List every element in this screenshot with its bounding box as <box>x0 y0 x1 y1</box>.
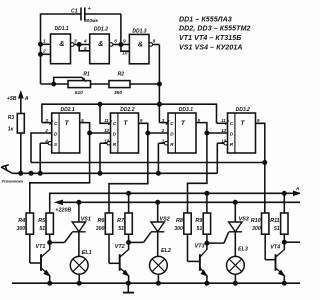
node DD1.2 out / C1 / DD1.3 in <box>119 39 129 56</box>
wire set/reset line (Установка) <box>12 171 217 175</box>
resistor R1 (trimmer) <box>41 72 91 96</box>
svg-text:300: 300 <box>174 226 183 232</box>
svg-text:А: А <box>295 186 299 191</box>
svg-text:51: 51 <box>39 226 45 232</box>
svg-text:EL3: EL3 <box>238 246 248 252</box>
svg-text:DD1.2: DD1.2 <box>94 26 108 32</box>
svg-text:51: 51 <box>118 226 124 232</box>
svg-text:DD1.3: DD1.3 <box>132 29 146 35</box>
resistor R8 <box>174 213 191 234</box>
svg-text:300: 300 <box>96 226 105 232</box>
svg-text:R2: R2 <box>118 72 125 78</box>
wire DD2.2 output to DD3.1 D and R6 <box>109 123 168 213</box>
svg-text:DD3.2: DD3.2 <box>236 107 250 113</box>
resistor R2 <box>109 72 159 96</box>
svg-text:10: 10 <box>122 50 128 55</box>
svg-text:DD2, DD3 – К555ТМ2: DD2, DD3 – К555ТМ2 <box>179 26 251 33</box>
svg-text:R3: R3 <box>8 115 15 121</box>
thyristor VS3 <box>234 202 236 222</box>
svg-text:390: 390 <box>114 90 122 96</box>
legend parts list <box>179 17 251 52</box>
node VT1 collector / R5 / VS1 gate <box>48 232 72 244</box>
thyristor VS1 <box>78 202 80 222</box>
svg-text:R: R <box>170 142 174 147</box>
svg-text:VT4: VT4 <box>270 244 280 250</box>
wire DD3.2 R input <box>217 141 227 173</box>
svg-text:D: D <box>113 132 117 137</box>
svg-text:VS3: VS3 <box>239 217 249 223</box>
svg-text:&: & <box>98 39 103 48</box>
wire DD3.1 C input <box>159 122 168 124</box>
svg-text:R7: R7 <box>117 218 125 224</box>
svg-text:VT1: VT1 <box>36 244 46 250</box>
wire +5V rail to base resistors (net A) <box>50 186 300 213</box>
wire DD2.1 D input from feedback <box>31 133 52 163</box>
svg-text:R5: R5 <box>38 218 46 224</box>
capacitor C1 <box>71 6 121 24</box>
svg-text:R11: R11 <box>270 218 280 224</box>
svg-text:+5В: +5В <box>7 96 17 102</box>
svg-text:1к: 1к <box>8 126 14 132</box>
svg-text:D: D <box>170 132 174 137</box>
wire DD3.2 C input <box>217 122 228 124</box>
svg-text:&: & <box>59 39 64 48</box>
wire DD3.2 output to R10 and feedback <box>256 123 267 213</box>
gate DD1.3 <box>129 29 159 64</box>
svg-text:T: T <box>65 120 70 127</box>
resistor R9 <box>195 213 210 234</box>
svg-text:DD3.1: DD3.1 <box>179 107 193 113</box>
svg-text:6: 6 <box>114 39 117 44</box>
resistor R3 <box>8 114 25 174</box>
svg-text:C: C <box>113 121 117 126</box>
svg-text:VT3: VT3 <box>195 243 205 249</box>
transistor VT3 <box>188 260 200 262</box>
wire ground bus <box>12 281 300 285</box>
wire R8 base lead ch3 <box>187 234 189 261</box>
wire C1 to DD1.2 output node <box>120 14 122 45</box>
flip-flop DD2.2 <box>111 113 139 153</box>
flip-flop DD3.2 <box>228 113 256 153</box>
svg-text:3: 3 <box>74 39 77 44</box>
svg-text:51: 51 <box>274 226 280 232</box>
svg-text:VS2: VS2 <box>160 217 170 223</box>
svg-text:9: 9 <box>140 118 143 123</box>
svg-text:4: 4 <box>83 39 87 44</box>
svg-text:+220В: +220В <box>55 208 71 214</box>
transistor VT1 <box>30 262 41 264</box>
resistor R11 <box>270 213 288 234</box>
wire DD2.1 S input <box>40 141 52 173</box>
wire feedback line Q4 to D1 <box>31 162 265 164</box>
ground <box>123 283 134 292</box>
svg-text:5: 5 <box>84 46 87 51</box>
node VT2 collector / R7 / VS2 gate <box>127 232 151 244</box>
svg-text:T: T <box>124 120 129 127</box>
svg-text:C: C <box>170 121 174 126</box>
svg-text:EL1: EL1 <box>82 250 92 256</box>
svg-text:1: 1 <box>43 39 46 44</box>
wire DD3.1 output to DD3.2 D and R8 <box>188 123 228 213</box>
svg-text:VT1 VT4 – КТ315Б: VT1 VT4 – КТ315Б <box>179 35 241 42</box>
resistor R6 <box>96 213 113 234</box>
wire R10 base lead ch4 <box>264 234 266 260</box>
flip-flop DD3.1 <box>168 113 196 153</box>
svg-text:EL2: EL2 <box>161 248 171 254</box>
switch SB1 Установка <box>1 165 24 184</box>
svg-text:11: 11 <box>221 118 226 123</box>
svg-text:S: S <box>54 142 58 147</box>
node VT4 collector / R11 / VS4 gate (off page) <box>282 234 300 244</box>
wire DD3.1 R input <box>158 141 168 173</box>
svg-text:C: C <box>54 121 58 126</box>
svg-text:&: & <box>138 39 143 48</box>
svg-text:D: D <box>230 132 234 137</box>
svg-text:C1: C1 <box>71 8 78 14</box>
wire clock bus <box>42 102 217 123</box>
transistor VT4 <box>265 259 275 261</box>
wire R6 base lead ch2 <box>108 234 110 263</box>
svg-text:Установка: Установка <box>1 178 23 183</box>
svg-text:9: 9 <box>123 39 126 44</box>
node VT3 collector / R9 / VS3 gate <box>205 232 229 245</box>
svg-text:DD2.2: DD2.2 <box>120 107 134 113</box>
svg-text:R4: R4 <box>18 218 25 224</box>
resistor R4 <box>17 213 34 234</box>
svg-text:500мк: 500мк <box>84 18 99 24</box>
wire DD1.3 output down to R2 and clock bus <box>157 45 161 123</box>
wire R1 to R2 <box>91 83 110 85</box>
thyristor VS2 <box>157 202 159 222</box>
svg-text:T: T <box>241 120 246 127</box>
svg-text:DD2.1: DD2.1 <box>61 107 75 113</box>
svg-text:DD1.1: DD1.1 <box>55 26 69 32</box>
svg-text:+: + <box>88 6 92 12</box>
svg-text:R8: R8 <box>176 218 183 224</box>
svg-text:VS1: VS1 <box>81 217 91 223</box>
wire DD2.1 C input <box>42 122 52 124</box>
svg-text:T: T <box>181 120 186 127</box>
svg-text:VT2: VT2 <box>115 244 125 250</box>
svg-text:А: А <box>24 96 29 102</box>
svg-text:R: R <box>113 142 117 147</box>
wire R4 base lead ch1 <box>29 234 31 263</box>
svg-text:300: 300 <box>252 226 261 232</box>
transistor VT2 <box>109 262 120 264</box>
svg-text:300: 300 <box>17 226 26 232</box>
gate DD1.1 <box>41 26 80 64</box>
svg-text:11: 11 <box>104 118 109 123</box>
svg-text:R10: R10 <box>251 218 261 224</box>
svg-text:R6: R6 <box>97 218 105 224</box>
power +5V arrow (net A) <box>7 92 29 114</box>
lamp EL3 <box>227 256 245 274</box>
lamp EL1 <box>70 256 88 274</box>
svg-text:9: 9 <box>257 118 260 123</box>
lamp EL2 <box>150 256 168 274</box>
resistor R5 <box>38 213 53 234</box>
svg-text:DD1 – К555ЛА3: DD1 – К555ЛА3 <box>179 17 232 24</box>
svg-text:2: 2 <box>42 49 46 54</box>
svg-text:51: 51 <box>197 226 203 232</box>
svg-text:8: 8 <box>153 39 156 44</box>
svg-text:R: R <box>230 142 234 147</box>
node DD1.1 out / DD1.2 in <box>77 39 90 51</box>
svg-text:510: 510 <box>75 90 83 96</box>
wire left rail (C1 / R1 / DD1.1 inputs node) <box>39 14 82 85</box>
svg-text:R9: R9 <box>195 218 202 224</box>
resistor R7 <box>117 213 132 234</box>
wire DD2.2 C input riser <box>100 104 111 123</box>
flip-flop DD2.1 <box>52 113 80 153</box>
wire DD2.2 R input <box>100 141 110 173</box>
power +220V line <box>55 200 300 213</box>
svg-text:C: C <box>230 121 234 126</box>
svg-text:VS1 VS4 – КУ201А: VS1 VS4 – КУ201А <box>179 44 243 51</box>
svg-text:D: D <box>54 132 58 137</box>
wire DD2.1 output to DD2.2 D and R4 <box>30 123 111 213</box>
resistor R10 <box>251 213 269 234</box>
gate DD1.2 <box>90 26 121 63</box>
svg-text:R1: R1 <box>83 72 90 78</box>
